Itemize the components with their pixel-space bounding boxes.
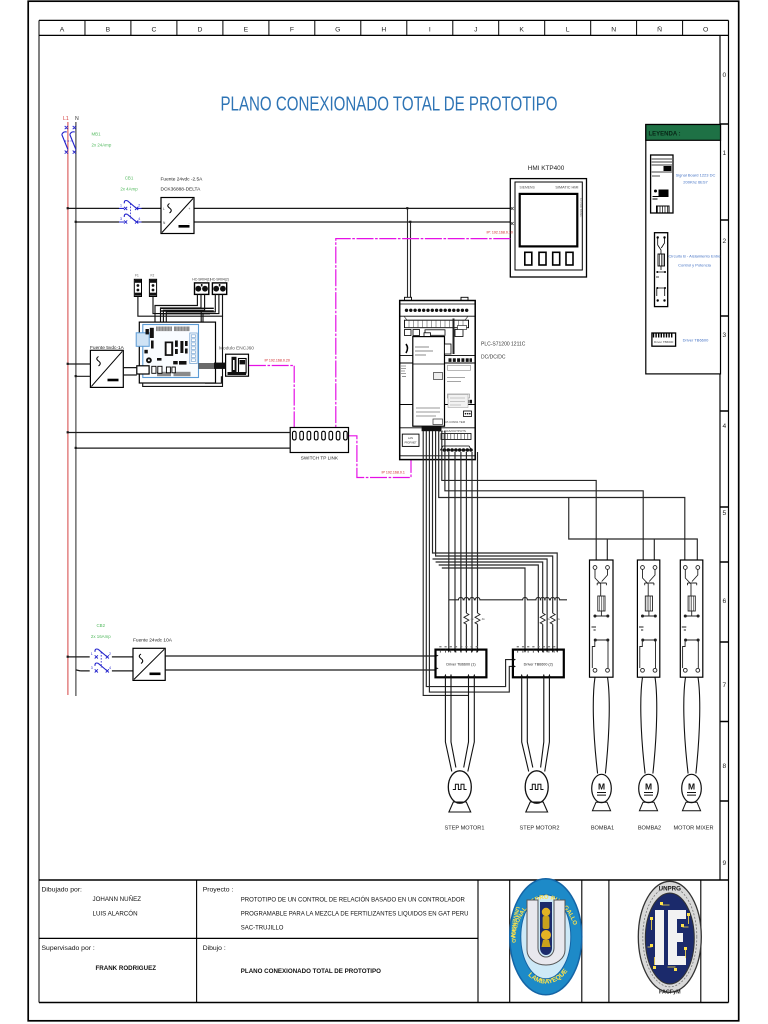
svg-text:BOMBA2: BOMBA2	[638, 826, 661, 832]
svg-text:3: 3	[91, 666, 93, 670]
svg-text:STEP MOTOR2: STEP MOTOR2	[520, 826, 560, 832]
svg-text:9: 9	[722, 860, 726, 867]
svg-text:Dibujo :: Dibujo :	[203, 945, 226, 952]
svg-text:6: 6	[722, 598, 726, 605]
svg-text:4: 4	[138, 217, 140, 221]
svg-text:PLC-S71200 1211C: PLC-S71200 1211C	[481, 342, 526, 348]
svg-text:DC/DC/DC: DC/DC/DC	[481, 355, 506, 361]
svg-text:2x 16Amp: 2x 16Amp	[91, 634, 111, 639]
svg-text:HMI KTP400: HMI KTP400	[528, 165, 565, 172]
svg-text:5: 5	[722, 510, 726, 517]
svg-text:Control y Potencia: Control y Potencia	[678, 263, 711, 268]
svg-text:FACFyM: FACFyM	[659, 990, 681, 996]
svg-text:C: C	[151, 26, 156, 33]
svg-text:Fuente 24vdc -2.5A: Fuente 24vdc -2.5A	[161, 177, 204, 183]
svg-text:Fuente 24vdc 10A: Fuente 24vdc 10A	[133, 638, 173, 644]
svg-text:PROTOTIPO DE UN CONTROL DE REL: PROTOTIPO DE UN CONTROL DE RELACIÓN BASA…	[241, 897, 466, 904]
svg-text:SWITCH TP LINK: SWITCH TP LINK	[301, 456, 339, 461]
svg-text:FRANK RODRIGUEZ: FRANK RODRIGUEZ	[96, 965, 157, 972]
svg-text:4: 4	[722, 423, 726, 430]
svg-text:D: D	[197, 26, 202, 33]
svg-text:2x 4Amp: 2x 4Amp	[120, 187, 138, 192]
svg-text:LUIS ALARCÓN: LUIS ALARCÓN	[93, 911, 138, 918]
svg-text:AT-CON91 TEM: AT-CON91 TEM	[445, 420, 466, 424]
svg-text:CB2: CB2	[97, 623, 106, 628]
svg-text:DCK36888-DELTA: DCK36888-DELTA	[161, 187, 202, 193]
svg-text:Driver TB6600 (1): Driver TB6600 (1)	[446, 663, 475, 667]
svg-text:F: F	[290, 26, 294, 33]
svg-text:H: H	[381, 26, 386, 33]
svg-text:IP: 192.168.0.10: IP: 192.168.0.10	[487, 231, 513, 235]
svg-text:PROGRAMABLE PARA LA MEZCLA DE: PROGRAMABLE PARA LA MEZCLA DE FERTILIZAN…	[241, 912, 469, 918]
svg-text:Driver TB6600: Driver TB6600	[654, 340, 674, 344]
svg-text:PLANO CONEXIONADO TOTAL DE PRO: PLANO CONEXIONADO TOTAL DE PROTOTIPO	[241, 968, 381, 975]
svg-text:Driver TB6600: Driver TB6600	[683, 338, 709, 343]
svg-text:4k: 4k	[482, 617, 486, 621]
svg-text:Supervisado por :: Supervisado por :	[42, 945, 95, 952]
svg-text:I: I	[429, 26, 431, 33]
svg-text:1: 1	[91, 652, 93, 656]
svg-text:L: L	[566, 26, 570, 33]
svg-text:MB1: MB1	[92, 132, 102, 137]
svg-text:SIMATIC HMI: SIMATIC HMI	[555, 186, 578, 190]
svg-text:J: J	[474, 26, 477, 33]
svg-text:3: 3	[120, 217, 122, 221]
svg-text:L: L	[163, 207, 165, 211]
svg-text:Circuito B - Aislamiento Entre: Circuito B - Aislamiento Entre	[668, 254, 721, 259]
svg-text:A: A	[60, 26, 65, 33]
svg-text:SAC-TRUJILLO: SAC-TRUJILLO	[241, 926, 284, 932]
svg-text:L1: L1	[63, 116, 69, 122]
svg-text:2x 24Amp: 2x 24Amp	[92, 143, 112, 148]
svg-text:N: N	[611, 26, 616, 33]
svg-text:O: O	[703, 26, 708, 33]
svg-text:4k: 4k	[557, 617, 561, 621]
svg-text:0: 0	[722, 72, 726, 79]
svg-text:PLANO CONEXIONADO TOTAL DE PRO: PLANO CONEXIONADO TOTAL DE PROTOTIPO	[221, 93, 558, 116]
svg-text:2: 2	[109, 652, 111, 656]
svg-text:-: -	[189, 221, 190, 225]
svg-text:M: M	[688, 782, 695, 792]
svg-text:200Khz 6ES7: 200Khz 6ES7	[683, 180, 708, 185]
svg-text:PROFINET: PROFINET	[404, 442, 417, 445]
svg-text:Signal Board 1223 DC: Signal Board 1223 DC	[676, 173, 716, 178]
svg-text:M: M	[645, 782, 652, 792]
svg-text:4: 4	[109, 666, 111, 670]
svg-text:Proyecto :: Proyecto :	[203, 887, 234, 894]
svg-text:Ñ: Ñ	[657, 24, 662, 33]
svg-text:E: E	[244, 26, 249, 33]
svg-text:Driver TB6600 (2): Driver TB6600 (2)	[524, 663, 553, 667]
svg-text:B: B	[106, 26, 111, 33]
svg-text:STEP MOTOR1: STEP MOTOR1	[445, 826, 485, 832]
svg-text:M: M	[598, 782, 605, 792]
svg-text:LEYENDA :: LEYENDA :	[649, 132, 681, 138]
svg-text:3: 3	[722, 332, 726, 339]
svg-text:8: 8	[722, 763, 726, 770]
svg-text:2: 2	[138, 203, 140, 207]
svg-text:F2: F2	[151, 274, 155, 278]
svg-text:SIEMENS: SIEMENS	[520, 186, 536, 190]
svg-text:KTP400 BASIC: KTP400 BASIC	[579, 198, 583, 217]
svg-text:7: 7	[722, 682, 726, 689]
svg-text:BOMBA1: BOMBA1	[591, 826, 614, 832]
svg-text:UNPRG: UNPRG	[659, 886, 682, 893]
svg-text:N: N	[75, 116, 79, 122]
svg-text:G: G	[335, 26, 340, 33]
svg-text:Dibujado por:: Dibujado por:	[42, 887, 83, 894]
svg-text:IP 192.168.0.20: IP 192.168.0.20	[265, 359, 290, 363]
svg-text:1: 1	[120, 203, 122, 207]
svg-text:MOTOR MIXER: MOTOR MIXER	[674, 826, 714, 832]
svg-text:2: 2	[722, 238, 726, 245]
svg-text:F1: F1	[135, 274, 139, 278]
svg-text:K: K	[519, 26, 524, 33]
svg-text:4k: 4k	[547, 617, 551, 621]
svg-text:Modulo ENCJ60: Modulo ENCJ60	[219, 346, 254, 352]
svg-text:+: +	[189, 207, 191, 211]
svg-text:CB1: CB1	[125, 176, 134, 181]
svg-text:4k: 4k	[471, 617, 475, 621]
svg-text:LAN: LAN	[408, 436, 413, 440]
svg-text:HC-SR04(2): HC-SR04(2)	[210, 278, 229, 282]
svg-text:HC-SR04(1): HC-SR04(1)	[192, 278, 211, 282]
svg-text:JOHANN NUÑEZ: JOHANN NUÑEZ	[93, 896, 142, 903]
svg-text:1: 1	[722, 150, 726, 157]
svg-text:IP 192.168.0.1: IP 192.168.0.1	[382, 471, 405, 475]
